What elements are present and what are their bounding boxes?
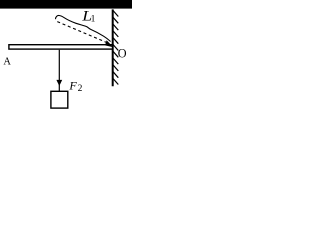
wall hatching <box>113 11 118 85</box>
beam (rod A-O) <box>9 45 113 49</box>
svg-text:1: 1 <box>91 15 96 25</box>
top black bar <box>0 0 132 9</box>
wall line <box>112 9 114 86</box>
string from beam to weight <box>58 50 60 91</box>
weight box <box>51 91 68 108</box>
svg-text:2: 2 <box>78 84 83 94</box>
background <box>0 0 132 115</box>
arrowhead at O <box>105 40 113 47</box>
cord L1 (solid wavy line with hook at left end) <box>56 15 111 41</box>
svg-text:O: O <box>118 47 127 61</box>
force F2 arrowhead (down) <box>56 80 62 86</box>
svg-text:F: F <box>68 78 77 92</box>
svg-text:A: A <box>3 56 11 67</box>
dashed line to O <box>57 22 109 44</box>
